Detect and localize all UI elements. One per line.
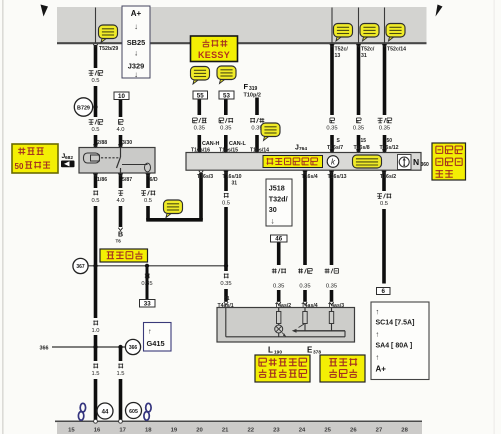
svg-text:20: 20: [196, 428, 203, 434]
svg-text:50: 50: [387, 138, 393, 144]
svg-text:23: 23: [273, 428, 280, 434]
svg-text:367: 367: [76, 264, 85, 270]
svg-text:↑: ↑: [376, 307, 380, 316]
svg-text:44: 44: [102, 410, 109, 416]
svg-text:G415: G415: [147, 339, 165, 348]
svg-text:T16s/15: T16s/15: [219, 148, 238, 154]
svg-text:319: 319: [249, 86, 258, 92]
svg-text:25: 25: [324, 428, 331, 434]
svg-text:22: 22: [248, 428, 255, 434]
svg-text:31: 31: [224, 296, 230, 302]
svg-text:33: 33: [144, 301, 151, 308]
svg-text:0.5: 0.5: [144, 198, 152, 204]
svg-text:17: 17: [119, 428, 126, 434]
svg-text:10: 10: [118, 93, 125, 100]
svg-text:31: 31: [361, 53, 367, 59]
svg-text:26: 26: [350, 428, 357, 434]
svg-text:19: 19: [171, 428, 178, 434]
svg-text:↑: ↑: [148, 327, 152, 336]
svg-text:0.5: 0.5: [222, 201, 230, 207]
svg-text:CAN-L: CAN-L: [229, 141, 246, 147]
svg-text:24: 24: [299, 428, 306, 434]
svg-text:6/D: 6/D: [150, 177, 158, 183]
svg-text:50: 50: [15, 162, 24, 171]
svg-text:↑: ↑: [376, 353, 380, 362]
svg-text:1.0: 1.0: [91, 328, 99, 334]
svg-text:3/30: 3/30: [122, 140, 132, 146]
svg-text:0.5: 0.5: [91, 198, 99, 204]
svg-text:31: 31: [232, 181, 238, 187]
svg-text:T16s/7: T16s/7: [327, 145, 343, 151]
svg-text:T16s/14: T16s/14: [250, 148, 269, 154]
svg-text:0.5: 0.5: [91, 78, 99, 84]
svg-text:↓: ↓: [271, 217, 275, 226]
svg-text:0.35: 0.35: [299, 283, 310, 289]
svg-text:A+: A+: [131, 9, 142, 18]
svg-text:0.35: 0.35: [273, 283, 284, 289]
svg-text:T16s/13: T16s/13: [328, 174, 347, 180]
svg-text:B: B: [118, 232, 123, 239]
svg-text:5/87: 5/87: [122, 177, 132, 183]
svg-text:15: 15: [68, 428, 75, 434]
svg-text:366: 366: [40, 345, 49, 351]
svg-text:764: 764: [299, 146, 307, 152]
svg-text:T52c/: T52c/: [335, 47, 349, 53]
svg-text:SB25: SB25: [127, 38, 146, 47]
svg-text:1.5: 1.5: [116, 371, 124, 377]
svg-text:T52c/: T52c/: [361, 47, 375, 53]
svg-text:T4as/2: T4as/2: [275, 303, 291, 309]
svg-text:T52c/14: T52c/14: [387, 47, 406, 53]
svg-text:1.5: 1.5: [91, 371, 99, 377]
svg-text:46: 46: [275, 236, 282, 243]
svg-text:190: 190: [274, 349, 282, 355]
svg-text:360: 360: [421, 162, 430, 168]
svg-text:682: 682: [65, 155, 73, 161]
svg-text:605: 605: [129, 409, 138, 415]
svg-text:T6: T6: [116, 239, 122, 244]
svg-text:J518: J518: [269, 184, 285, 193]
svg-text:SA4 [ 80A ]: SA4 [ 80A ]: [376, 343, 413, 350]
svg-text:0.35: 0.35: [379, 126, 390, 132]
svg-text:T16s/8: T16s/8: [354, 145, 370, 151]
svg-text:T4as/3: T4as/3: [328, 303, 344, 309]
svg-text:↓: ↓: [134, 22, 138, 31]
svg-text:15: 15: [361, 138, 367, 144]
svg-text:T16s/10: T16s/10: [223, 174, 242, 180]
svg-text:B729: B729: [77, 105, 90, 111]
svg-text:55: 55: [197, 93, 204, 100]
svg-text:4.0: 4.0: [116, 198, 124, 204]
svg-text:6: 6: [382, 288, 386, 295]
svg-text:T4as/4: T4as/4: [302, 303, 318, 309]
svg-text:18: 18: [145, 428, 152, 434]
svg-text:0.5: 0.5: [380, 201, 388, 207]
svg-text:0.35: 0.35: [220, 126, 231, 132]
svg-text:T16s/3: T16s/3: [197, 174, 213, 180]
svg-text:30: 30: [269, 205, 277, 214]
svg-text:0.5: 0.5: [91, 127, 99, 133]
svg-text:↓: ↓: [134, 49, 138, 58]
svg-text:F: F: [244, 82, 249, 91]
svg-text:27: 27: [376, 428, 383, 434]
svg-text:13: 13: [335, 53, 341, 59]
svg-text:16: 16: [94, 428, 101, 434]
svg-text:↓: ↓: [134, 70, 138, 79]
svg-text:0.35: 0.35: [353, 126, 364, 132]
svg-text:T16s/16: T16s/16: [191, 148, 210, 154]
svg-text:378: 378: [313, 349, 321, 355]
svg-text:21: 21: [222, 428, 229, 434]
svg-text:T10p/2: T10p/2: [244, 92, 261, 98]
svg-text:T16s/2: T16s/2: [380, 174, 396, 180]
svg-text:28: 28: [401, 428, 408, 434]
svg-text:T4as/1: T4as/1: [218, 303, 234, 309]
svg-text:0.35: 0.35: [141, 281, 152, 287]
svg-text:L: L: [268, 346, 273, 355]
svg-text:366: 366: [129, 345, 138, 351]
svg-text:2/88: 2/88: [97, 140, 107, 146]
svg-text:SC14 [7.5A]: SC14 [7.5A]: [376, 320, 415, 327]
svg-text:4.0: 4.0: [116, 127, 124, 133]
svg-text:T16s/4: T16s/4: [302, 174, 318, 180]
svg-text:0.35: 0.35: [326, 126, 337, 132]
svg-text:0.35: 0.35: [220, 281, 231, 287]
svg-text:T16s/12: T16s/12: [380, 145, 399, 151]
svg-text:0.35: 0.35: [194, 126, 205, 132]
svg-text:N: N: [413, 157, 419, 167]
svg-text:1/86: 1/86: [97, 177, 107, 183]
svg-text:A+: A+: [376, 365, 387, 374]
svg-text:↑: ↑: [376, 330, 380, 339]
svg-text:0.35: 0.35: [326, 283, 337, 289]
svg-text:KESSY: KESSY: [198, 50, 230, 60]
svg-text:T52b/29: T52b/29: [99, 46, 118, 52]
svg-text:CAN-H: CAN-H: [202, 141, 219, 147]
svg-text:T32d/: T32d/: [269, 195, 288, 204]
svg-text:53: 53: [223, 93, 230, 100]
